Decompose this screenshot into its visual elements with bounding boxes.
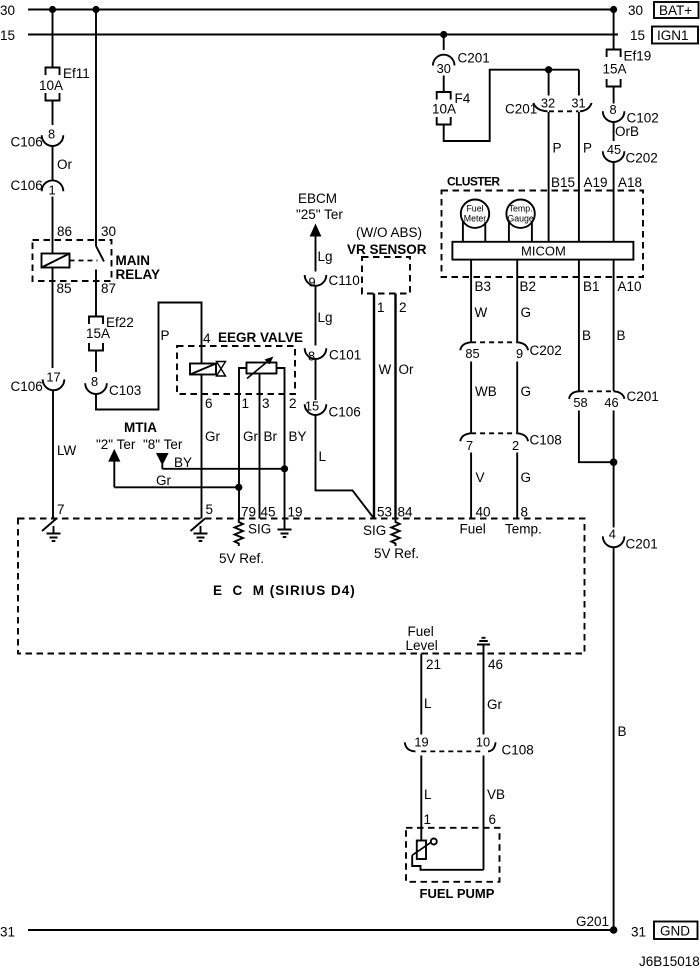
fuse Ef19 15A <box>607 50 621 87</box>
node junction feed/32 <box>545 66 552 73</box>
ground at pin 7 <box>42 519 57 532</box>
svg-text:10A: 10A <box>39 78 63 93</box>
wire BY from EEGR pin2 to 8 Ter <box>162 468 284 470</box>
relay switch blade <box>96 246 104 262</box>
svg-text:86: 86 <box>57 224 72 239</box>
svg-text:B2: B2 <box>520 279 537 294</box>
svg-text:Fuel: Fuel <box>408 624 434 639</box>
svg-text:FUEL PUMP: FUEL PUMP <box>420 886 495 901</box>
wire WB <box>470 362 472 433</box>
node junction 30/right line <box>610 6 617 13</box>
svg-text:GND: GND <box>660 924 690 939</box>
svg-text:Lg: Lg <box>318 310 333 325</box>
fuel meter gauge <box>461 200 489 228</box>
svg-text:IGN1: IGN1 <box>657 28 689 43</box>
svg-text:BY: BY <box>289 429 307 444</box>
svg-text:85: 85 <box>465 346 479 361</box>
svg-text:30: 30 <box>0 3 15 18</box>
svg-text:Or: Or <box>57 157 73 172</box>
fuel pump dashed box <box>406 828 500 882</box>
fuse Ef11 10A <box>46 68 60 101</box>
svg-text:6: 6 <box>205 396 213 411</box>
svg-text:53: 53 <box>377 505 392 520</box>
svg-text:17: 17 <box>46 370 60 385</box>
eegr valve dashed box <box>177 346 295 394</box>
connector C202 pins 85/9 <box>460 342 471 350</box>
svg-text:1: 1 <box>48 183 55 198</box>
wire C101 to C106 <box>315 359 317 400</box>
svg-text:8: 8 <box>609 102 616 117</box>
wire P from C103 to EEGR pin 4 <box>96 303 202 410</box>
ground at pin 19 <box>278 519 292 538</box>
svg-text:15A: 15A <box>86 326 110 341</box>
wire color L to ECM pin 53 <box>316 415 375 519</box>
svg-text:9: 9 <box>516 346 523 361</box>
wire bus 15 <box>28 34 618 36</box>
svg-text:J6B15018: J6B15018 <box>639 954 700 969</box>
wire LW to ECM pin 7 <box>52 390 54 518</box>
svg-text:Temp.: Temp. <box>509 204 533 214</box>
ECM dashed box <box>18 519 585 654</box>
svg-text:B: B <box>582 328 591 343</box>
svg-text:C201: C201 <box>627 389 659 404</box>
svg-text:C202: C202 <box>530 343 562 358</box>
svg-text:C103: C103 <box>109 383 141 398</box>
svg-text:B: B <box>617 328 626 343</box>
svg-text:E C M (SIRIUS D4): E C M (SIRIUS D4) <box>213 583 356 598</box>
svg-text:C108: C108 <box>530 433 562 448</box>
wire Or <box>52 146 54 181</box>
connector C201 pin 30 <box>433 55 455 66</box>
svg-text:B15: B15 <box>551 175 575 190</box>
svg-text:32: 32 <box>541 96 555 111</box>
arrow to MTIA 8 Ter <box>156 453 169 466</box>
terminal box GND <box>654 922 698 940</box>
svg-text:F4: F4 <box>455 91 471 106</box>
wire solenoid to pin 6 <box>201 375 203 519</box>
fuse Ef22 15A <box>89 317 103 351</box>
wire fuse to C106 pin 8 <box>52 101 54 126</box>
fuel pump wiper arm <box>412 843 431 856</box>
svg-text:10: 10 <box>476 735 490 750</box>
svg-text:Gr: Gr <box>205 429 221 444</box>
svg-text:4: 4 <box>609 527 616 542</box>
wire B3 W <box>470 260 472 342</box>
svg-text:Gr: Gr <box>243 429 259 444</box>
wire bus 30 <box>28 9 614 11</box>
wire pot wiper to pin 3 <box>259 374 261 519</box>
node junction B wires <box>610 458 618 466</box>
svg-text:MICOM: MICOM <box>521 244 566 259</box>
svg-text:Gr: Gr <box>487 697 503 712</box>
eegr valve poppet symbol <box>217 362 226 377</box>
connector C108 pins 7/2 <box>460 433 471 441</box>
svg-text:L: L <box>424 696 432 711</box>
svg-text:31: 31 <box>571 96 585 111</box>
svg-text:"8" Ter: "8" Ter <box>143 437 183 452</box>
wire Ef19 to C102 <box>613 87 615 104</box>
svg-text:30: 30 <box>437 61 451 76</box>
svg-text:19: 19 <box>414 735 428 750</box>
svg-text:EEGR VALVE: EEGR VALVE <box>218 330 303 345</box>
potentiometer arrow <box>247 360 270 379</box>
connector C201 pin 4 <box>603 536 625 547</box>
svg-text:5V Ref.: 5V Ref. <box>374 546 419 561</box>
terminal box IGN1 <box>652 27 698 44</box>
svg-text:C201: C201 <box>505 102 537 117</box>
potentiometer <box>247 363 277 374</box>
svg-text:2: 2 <box>399 300 407 315</box>
connector C106 pin 8 <box>42 135 64 146</box>
svg-text:C106: C106 <box>11 379 43 394</box>
wire pot left to pin 1 <box>239 368 247 519</box>
svg-text:C108: C108 <box>502 743 534 758</box>
node junction 15/C201 <box>440 31 447 38</box>
svg-text:Br: Br <box>264 429 278 444</box>
svg-text:1: 1 <box>424 812 432 827</box>
svg-text:6: 6 <box>489 812 497 827</box>
svg-text:MAIN: MAIN <box>116 253 151 268</box>
svg-text:7: 7 <box>57 502 65 517</box>
wire 15 to C201 pin 30 <box>443 35 445 51</box>
svg-text:9: 9 <box>308 275 315 290</box>
ground at pin 5 <box>191 519 206 532</box>
node junction 30/relay <box>92 6 99 13</box>
svg-text:"25" Ter: "25" Ter <box>296 207 343 222</box>
micom box <box>452 242 633 260</box>
svg-text:Or: Or <box>399 362 415 377</box>
svg-text:VB: VB <box>487 787 505 802</box>
wire Ef22 to C103 <box>95 351 97 373</box>
svg-text:V: V <box>476 470 485 485</box>
svg-text:45: 45 <box>607 142 621 157</box>
connector C202 pin 45 <box>603 151 625 162</box>
temp gauge <box>506 200 534 228</box>
svg-text:C106: C106 <box>11 178 43 193</box>
wire B right side down <box>613 547 615 930</box>
relay contact 87 stub <box>95 270 97 317</box>
svg-text:15: 15 <box>630 28 645 43</box>
wire color Lg <box>315 286 317 346</box>
wire G <box>516 362 518 433</box>
svg-text:15: 15 <box>305 399 319 414</box>
svg-text:19: 19 <box>288 505 303 520</box>
svg-text:G201: G201 <box>576 914 609 929</box>
svg-text:C110: C110 <box>329 273 360 288</box>
node junction BY/pin2 <box>281 465 288 472</box>
svg-text:G: G <box>521 305 532 320</box>
svg-text:B1: B1 <box>583 279 600 294</box>
svg-text:SIG: SIG <box>248 522 271 537</box>
svg-text:B: B <box>618 724 627 739</box>
cluster dashed box <box>442 191 644 278</box>
wire C106 to relay pin 86 <box>52 197 54 254</box>
svg-text:Meter: Meter <box>464 214 487 224</box>
vr sensor pin 1 wire W <box>373 294 375 519</box>
svg-text:BY: BY <box>174 455 192 470</box>
wire relay 85 down <box>52 268 54 369</box>
svg-text:8: 8 <box>91 374 98 389</box>
svg-text:Level: Level <box>406 638 438 653</box>
svg-text:30: 30 <box>628 3 643 18</box>
svg-text:C202: C202 <box>626 151 658 166</box>
svg-text:CLUSTER: CLUSTER <box>447 175 500 189</box>
svg-text:Ef19: Ef19 <box>624 49 652 64</box>
relay coil link dashed <box>70 260 98 262</box>
svg-text:Lg: Lg <box>318 249 333 264</box>
fuel pump bottom wire <box>412 855 483 870</box>
svg-text:46: 46 <box>488 657 503 672</box>
right line from BAT+ <box>613 10 615 50</box>
svg-text:31: 31 <box>0 925 15 940</box>
wire B15 P <box>548 112 550 242</box>
wire pot right to pin 2 <box>277 368 285 519</box>
eegr solenoid coil <box>190 364 216 375</box>
wire color OrB <box>613 122 615 141</box>
svg-text:5V Ref.: 5V Ref. <box>219 551 264 566</box>
wire G to ECM pin 8 <box>516 453 518 519</box>
connector C108 pins 19/10 <box>405 742 416 751</box>
svg-text:A18: A18 <box>618 175 642 190</box>
svg-text:Temp.: Temp. <box>505 522 542 537</box>
svg-text:84: 84 <box>398 505 414 520</box>
svg-text:P: P <box>161 328 170 343</box>
svg-text:15A: 15A <box>603 62 627 77</box>
svg-text:G: G <box>521 384 532 399</box>
svg-text:C201: C201 <box>458 51 490 66</box>
connector C101 pin 8 <box>305 348 327 359</box>
connector C103 pin 8 <box>85 383 107 394</box>
svg-text:21: 21 <box>426 657 441 672</box>
svg-text:MTIA: MTIA <box>124 420 157 435</box>
resistor at pin 84 <box>391 519 399 547</box>
svg-text:(W/O ABS): (W/O ABS) <box>356 225 422 240</box>
wire B2 G <box>516 260 518 342</box>
connector C106 pin 1 <box>42 180 64 191</box>
svg-text:P: P <box>553 141 562 156</box>
node junction Gr/pin1 <box>235 484 242 491</box>
svg-text:2: 2 <box>512 438 519 453</box>
connector C106 pin 17 <box>43 379 65 390</box>
connector C106 pin 15 <box>305 404 327 415</box>
node junction 30/Ef11 <box>49 6 56 13</box>
arrow to MTIA 2 Ter <box>108 449 120 462</box>
fuel pump sender resistor <box>417 841 426 860</box>
wire Gr from pin 46 <box>483 654 485 735</box>
svg-text:SIG: SIG <box>363 523 386 538</box>
wire 30 to relay pin 30 <box>95 10 97 247</box>
connector C110 pin 9 <box>305 275 327 286</box>
svg-text:P: P <box>583 141 592 156</box>
svg-text:L: L <box>319 449 327 464</box>
svg-text:G: G <box>521 470 532 485</box>
svg-text:5: 5 <box>206 502 214 517</box>
svg-text:15: 15 <box>0 28 15 43</box>
relay coil <box>42 254 70 268</box>
wire to connector 31 <box>578 70 580 96</box>
svg-text:58: 58 <box>573 395 587 410</box>
svg-text:WB: WB <box>475 384 497 399</box>
svg-text:3: 3 <box>262 396 270 411</box>
svg-text:10A: 10A <box>432 102 456 117</box>
svg-text:C106: C106 <box>11 135 43 150</box>
wire A18 into cluster <box>613 162 615 242</box>
svg-text:"2" Ter: "2" Ter <box>96 437 136 452</box>
svg-text:40: 40 <box>476 505 491 520</box>
svg-text:30: 30 <box>101 224 116 239</box>
svg-text:W: W <box>379 362 392 377</box>
terminal box BAT+ <box>654 2 699 18</box>
svg-text:A10: A10 <box>618 279 642 294</box>
wire A19 P <box>578 112 580 242</box>
svg-text:Fuel: Fuel <box>460 522 486 537</box>
svg-text:2: 2 <box>289 396 297 411</box>
svg-text:EBCM: EBCM <box>298 191 337 206</box>
svg-text:7: 7 <box>466 438 473 453</box>
wire L from pin 21 <box>420 654 422 735</box>
svg-text:45: 45 <box>261 505 276 520</box>
wire V to ECM pin 40 <box>470 453 472 519</box>
svg-text:BAT+: BAT+ <box>659 3 692 18</box>
node junction G201 <box>610 926 618 934</box>
svg-text:8: 8 <box>48 127 55 142</box>
svg-text:A19: A19 <box>584 175 608 190</box>
wire 58 to junction <box>579 411 614 463</box>
svg-text:8: 8 <box>308 349 315 364</box>
vr sensor pin 2 wire Or <box>394 294 396 519</box>
svg-text:1: 1 <box>377 300 385 315</box>
wire F4 to cluster feed <box>444 70 579 141</box>
svg-text:Gauge: Gauge <box>507 214 534 224</box>
svg-text:Fuel: Fuel <box>466 204 483 214</box>
wire L to fuel pump pin 1 <box>420 756 422 841</box>
ground inside ECM at pin 46 <box>477 638 490 654</box>
resistor at pin 79 <box>235 519 243 547</box>
svg-text:LW: LW <box>57 443 77 458</box>
svg-text:4: 4 <box>203 331 211 346</box>
svg-text:Ef11: Ef11 <box>63 66 90 81</box>
wire to connector 32 <box>548 70 550 96</box>
svg-text:C201: C201 <box>626 537 658 552</box>
connector C201 pins 58/46 <box>569 391 579 399</box>
wire 46 down <box>613 411 615 528</box>
wire 30 to fuse Ef11 <box>52 10 54 67</box>
svg-text:Ef22: Ef22 <box>106 315 134 330</box>
svg-text:C106: C106 <box>329 405 361 420</box>
svg-text:L: L <box>424 787 432 802</box>
connector C102 pin 8 <box>603 111 625 122</box>
svg-text:79: 79 <box>241 505 256 520</box>
arrow to EBCM <box>310 224 322 237</box>
svg-text:RELAY: RELAY <box>116 267 161 282</box>
fuse F4 10A <box>437 92 451 125</box>
svg-text:B3: B3 <box>475 279 492 294</box>
wire VB to fuel pump pin 6 <box>483 756 485 870</box>
svg-text:C101: C101 <box>329 348 361 363</box>
wire C201 to fuse F4 <box>443 76 445 92</box>
vr sensor dashed box <box>362 257 410 294</box>
relay main relay dashed box <box>33 240 112 281</box>
svg-text:Gr: Gr <box>156 473 172 488</box>
wire Gr from EEGR pin1 to 2 Ter <box>114 486 239 488</box>
wire bus 31 ground <box>28 929 614 931</box>
svg-text:OrB: OrB <box>615 124 639 139</box>
svg-text:W: W <box>475 305 488 320</box>
wire B1 B <box>578 260 580 392</box>
svg-text:1: 1 <box>242 396 250 411</box>
svg-text:8: 8 <box>521 505 529 520</box>
svg-text:85: 85 <box>57 281 72 296</box>
svg-text:31: 31 <box>631 925 646 940</box>
svg-text:VR SENSOR: VR SENSOR <box>347 242 427 257</box>
svg-text:46: 46 <box>604 395 618 410</box>
svg-text:87: 87 <box>101 281 116 296</box>
wire A10 B <box>613 260 615 392</box>
